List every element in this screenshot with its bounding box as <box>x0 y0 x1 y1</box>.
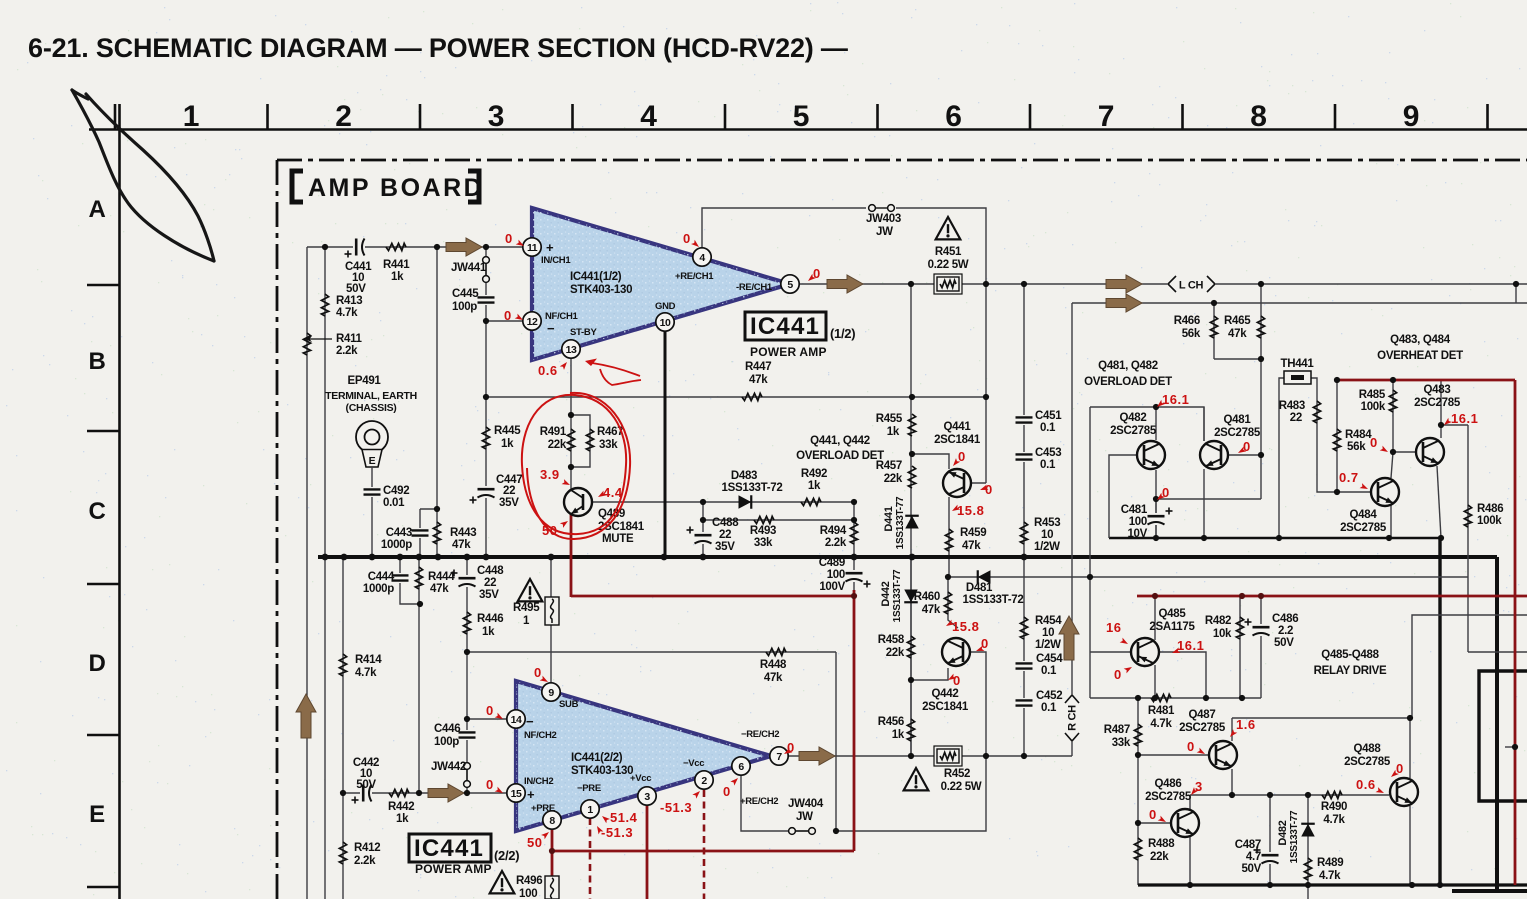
wire maroon y851 horizontal <box>552 850 854 853</box>
wire Q484 collector <box>1391 452 1393 478</box>
svg-text:R483: R483 <box>1279 400 1305 412</box>
svg-text:22k: 22k <box>1150 851 1169 863</box>
wire C481 vertical <box>1155 499 1157 538</box>
svg-text:R491: R491 <box>540 426 567 438</box>
svg-text:IN/CH2: IN/CH2 <box>524 776 553 787</box>
wire feedback top loop pin4-JW403 <box>702 208 866 257</box>
wire maroon overheat box right <box>1514 380 1517 885</box>
wire maroon pin8 drop <box>551 829 554 899</box>
pin 10 <box>656 313 674 331</box>
svg-text:Q487: Q487 <box>1189 709 1216 721</box>
svg-text:C453: C453 <box>1035 447 1061 459</box>
svg-text:0: 0 <box>504 308 512 323</box>
resistor R466 <box>1210 316 1217 338</box>
svg-text:R414: R414 <box>355 654 382 666</box>
wire maroon overheat box top <box>1337 379 1515 382</box>
svg-text:Q481, Q482: Q481, Q482 <box>1098 360 1158 372</box>
svg-text:50: 50 <box>527 835 542 850</box>
svg-text:2: 2 <box>335 100 351 133</box>
resistor R447 <box>742 393 762 400</box>
wire TH441 right lead R483 <box>1310 378 1370 492</box>
wire C443 tie <box>420 508 437 510</box>
svg-text:C444: C444 <box>368 571 395 583</box>
svg-text:R441: R441 <box>383 259 410 271</box>
wire x911 vertical CH1 sense <box>910 284 912 756</box>
svg-text:16.1: 16.1 <box>1162 392 1189 407</box>
capacitor C488 <box>694 532 712 544</box>
svg-text:100: 100 <box>1129 516 1147 528</box>
svg-text:33k: 33k <box>1112 737 1131 749</box>
resistor R494 <box>850 522 857 544</box>
fusible resistor R452 <box>934 746 962 766</box>
wire relay net y795 <box>1190 794 1389 796</box>
svg-text:RELAY DRIVE: RELAY DRIVE <box>1314 665 1387 677</box>
svg-text:1k: 1k <box>391 271 404 283</box>
svg-text:47k: 47k <box>922 604 941 616</box>
wire TH441 left lead <box>1279 378 1285 538</box>
pin 8 <box>543 811 561 829</box>
svg-text:NF/CH2: NF/CH2 <box>524 730 557 741</box>
svg-text:1SS133T-77: 1SS133T-77 <box>1289 810 1300 863</box>
ruler ticks <box>114 104 117 130</box>
svg-text:0.1: 0.1 <box>1041 702 1057 714</box>
svg-text:IC441(2/2): IC441(2/2) <box>571 752 623 764</box>
svg-text:D: D <box>88 650 105 677</box>
wire detect net y577 <box>948 576 1468 578</box>
wire Q485 collector <box>1154 665 1156 698</box>
svg-text:1k: 1k <box>501 438 514 450</box>
svg-text:50V: 50V <box>346 283 366 295</box>
ruler top line <box>89 128 1527 131</box>
svg-text:1000p: 1000p <box>381 539 412 551</box>
wire Q481 emitter <box>1203 469 1205 538</box>
pin 7 <box>770 747 788 765</box>
svg-text:100k: 100k <box>1361 401 1386 413</box>
wire R485 vertical <box>1392 380 1394 452</box>
connector R CH <box>1064 696 1080 740</box>
svg-text:4.7k: 4.7k <box>1323 814 1345 826</box>
svg-text:+: + <box>527 787 535 802</box>
wire R413 vertical x325 <box>324 247 326 899</box>
svg-text:4: 4 <box>699 252 705 264</box>
svg-text:100: 100 <box>519 888 537 899</box>
op-amp IC441(1/2) <box>532 208 790 360</box>
diode D442 <box>904 590 918 603</box>
wire Q442 collector R460 <box>948 577 958 628</box>
wire Q481 collector <box>1203 407 1205 441</box>
AMP BOARD dash-dot border top <box>277 159 1527 162</box>
wire Q487 collector <box>1231 718 1233 741</box>
svg-text:R487: R487 <box>1104 724 1130 736</box>
resistor R465 <box>1257 316 1264 338</box>
wire Q485 emitter <box>1154 597 1156 640</box>
wire maroon relay rail y596 <box>1137 595 1527 598</box>
wire Q487 emitter <box>1231 769 1233 795</box>
fusible resistor R451 <box>934 274 962 294</box>
svg-text:0: 0 <box>981 636 989 651</box>
wire maroon Q489 emitter down <box>570 514 573 597</box>
wire GND pin10 down <box>664 331 667 557</box>
annotation red arrow to pin13 <box>592 363 640 376</box>
svg-text:0: 0 <box>486 777 494 792</box>
wire R495 vertical <box>550 557 552 683</box>
svg-text:(1/2): (1/2) <box>830 326 855 341</box>
svg-text:2.2: 2.2 <box>1278 625 1293 637</box>
capacitor C446 <box>458 730 476 740</box>
wire D442 sense x911 lower <box>910 557 912 756</box>
wire Q486 emitter <box>1189 837 1191 885</box>
svg-text:10: 10 <box>1041 529 1053 541</box>
svg-text:2SC2785: 2SC2785 <box>1179 722 1226 734</box>
wire output CH1 after L CH <box>1216 283 1527 285</box>
svg-text:0.22 5W: 0.22 5W <box>941 781 982 793</box>
wire D482 R489 vertical <box>1307 795 1309 899</box>
svg-text:10k: 10k <box>1213 628 1232 640</box>
svg-text:D483: D483 <box>731 470 757 482</box>
wire JW404 left <box>741 775 788 831</box>
resistor R487 <box>1134 724 1141 746</box>
svg-text:4.7: 4.7 <box>1246 851 1261 863</box>
svg-text:R488: R488 <box>1148 838 1175 850</box>
svg-text:33k: 33k <box>599 439 618 451</box>
svg-text:1k: 1k <box>887 426 900 438</box>
svg-text:R413: R413 <box>336 295 362 307</box>
resistor R489 <box>1304 858 1311 880</box>
wire right edge stub dot <box>1505 746 1515 748</box>
wire Q482 collector <box>1155 407 1157 440</box>
svg-text:1/2W: 1/2W <box>1034 541 1060 553</box>
svg-text:2SC2785: 2SC2785 <box>1340 522 1387 534</box>
resistor R485 <box>1389 390 1396 412</box>
svg-text:D441: D441 <box>883 506 895 531</box>
svg-text:0.1: 0.1 <box>1040 459 1056 471</box>
wire C443 vertical <box>419 509 421 557</box>
resistor R413 <box>321 294 328 316</box>
svg-text:R CH: R CH <box>1067 705 1079 731</box>
svg-text:15: 15 <box>511 788 522 800</box>
svg-text:22k: 22k <box>884 473 903 485</box>
svg-text:4.7k: 4.7k <box>1150 718 1172 730</box>
svg-text:47k: 47k <box>452 539 471 551</box>
svg-text:51.4: 51.4 <box>610 810 638 825</box>
svg-text:B: B <box>88 348 105 375</box>
svg-text:+Vcc: +Vcc <box>630 773 651 784</box>
svg-text:4.7k: 4.7k <box>1319 870 1341 882</box>
svg-text:IC441: IC441 <box>750 313 820 340</box>
svg-text:50: 50 <box>542 523 557 538</box>
capacitor C451 <box>1015 415 1033 425</box>
wire pin12 stub <box>486 320 523 322</box>
svg-text:JW404: JW404 <box>788 798 824 810</box>
resistor R490 <box>1322 791 1342 798</box>
svg-text:4: 4 <box>640 100 657 133</box>
resistor R460 <box>944 592 951 614</box>
wire JW404 inner <box>796 830 808 832</box>
svg-text:2SC2785: 2SC2785 <box>1414 397 1461 409</box>
wire overload det box top y407 <box>1090 407 1204 441</box>
maroon junction dots <box>851 593 857 599</box>
wire x1024 filter chain lower <box>1023 557 1025 756</box>
wire Q482 base <box>1109 455 1137 538</box>
svg-text:C454: C454 <box>1036 653 1063 665</box>
svg-text:35V: 35V <box>715 541 735 553</box>
wire maroon pin3 drop <box>646 805 649 899</box>
transistor Q486 <box>1171 809 1199 837</box>
resistor R493 <box>754 516 774 523</box>
svg-text:47k: 47k <box>962 540 981 552</box>
svg-text:8: 8 <box>1250 100 1266 133</box>
brown arrow output CH1 <box>827 275 863 293</box>
svg-text:C488: C488 <box>712 517 739 529</box>
wire Q489 collector to D483 net <box>590 501 854 503</box>
svg-text:−: − <box>526 714 534 729</box>
bus junction dots <box>322 554 329 561</box>
svg-text:0: 0 <box>723 784 731 799</box>
wire R447 net y397 <box>486 396 986 398</box>
svg-text:3.9: 3.9 <box>540 467 560 482</box>
svg-text:2SC1841: 2SC1841 <box>922 701 969 713</box>
wire stub right edge <box>1515 284 1517 303</box>
wire R465 R466 tie <box>1214 358 1261 360</box>
resistor R484 <box>1333 429 1340 451</box>
svg-text:7: 7 <box>1098 100 1114 133</box>
svg-text:−RE/CH2: −RE/CH2 <box>741 729 779 740</box>
svg-text:R459: R459 <box>960 527 986 539</box>
pin 2 <box>695 771 713 789</box>
svg-text:1k: 1k <box>396 813 409 825</box>
svg-text:100: 100 <box>827 569 845 581</box>
wire bottom bus relay <box>1138 883 1527 886</box>
transistor Q484 <box>1371 478 1399 506</box>
svg-text:C486: C486 <box>1272 613 1298 625</box>
svg-text:100k: 100k <box>1477 515 1502 527</box>
resistor R444 <box>415 567 422 589</box>
svg-text:16.1: 16.1 <box>1451 411 1478 426</box>
wire R CH riser lower <box>1071 742 1073 756</box>
wire Q483 collector <box>1440 380 1442 438</box>
op-amp IC441(2/2) <box>516 681 771 831</box>
svg-text:R453: R453 <box>1034 517 1060 529</box>
capacitor C442 <box>360 784 372 802</box>
svg-text:C443: C443 <box>386 527 412 539</box>
svg-text:R492: R492 <box>801 468 827 480</box>
resistor R411 variable <box>303 333 310 355</box>
brown arrow L CH upper <box>1106 275 1142 293</box>
resistor R482 <box>1236 617 1243 639</box>
resistor R414 <box>339 654 346 676</box>
svg-text:1k: 1k <box>482 626 495 638</box>
diode D482 <box>1301 824 1315 837</box>
resistor R442 <box>389 789 409 796</box>
svg-text:22k: 22k <box>886 647 905 659</box>
svg-text:SUB: SUB <box>559 699 579 710</box>
svg-text:0.1: 0.1 <box>1041 665 1057 677</box>
capacitor C444 <box>391 573 409 583</box>
svg-text:-RE/CH1: -RE/CH1 <box>736 282 773 293</box>
brown arrow output CH2 <box>799 747 835 765</box>
svg-text:C451: C451 <box>1035 410 1062 422</box>
svg-text:22: 22 <box>719 529 731 541</box>
wire x1024 filter chain upper <box>1023 284 1025 557</box>
svg-text:R445: R445 <box>494 425 521 437</box>
svg-text:56k: 56k <box>1182 328 1201 340</box>
wire maroon y596 left segment <box>571 595 854 598</box>
wire Q483 base <box>1393 451 1416 453</box>
svg-text:1000p: 1000p <box>363 583 394 595</box>
wire C487 vertical <box>1269 795 1271 885</box>
svg-text:Q441: Q441 <box>944 421 972 433</box>
svg-text:100V: 100V <box>819 581 845 593</box>
svg-text:11: 11 <box>527 242 538 254</box>
svg-text:E: E <box>369 455 376 467</box>
wire R467 branch <box>571 415 590 467</box>
wire maroon x854 vertical <box>853 590 856 851</box>
resistor R458 <box>907 636 914 658</box>
wire R486 vertical <box>1467 425 1469 652</box>
pin 4 <box>693 248 711 266</box>
svg-text:R454: R454 <box>1035 615 1062 627</box>
svg-text:1k: 1k <box>808 480 821 492</box>
wire x1090 vertical <box>1089 407 1091 698</box>
wire R484 vertical <box>1336 380 1338 492</box>
svg-text:0: 0 <box>534 665 542 680</box>
wire Q441 right to x986 <box>964 482 986 484</box>
svg-text:4.7k: 4.7k <box>355 667 377 679</box>
svg-text:0: 0 <box>505 231 513 246</box>
wire R486 top tie <box>1441 424 1468 426</box>
wire Q486 collector <box>1189 795 1191 809</box>
wire bus bottom right stub <box>1452 889 1527 893</box>
wire R487 chain x1138 <box>1137 698 1139 885</box>
capacitor C486 <box>1252 624 1270 636</box>
svg-text:E: E <box>89 801 105 828</box>
wire pin14 stub <box>467 718 507 720</box>
brown arrow left channel riser <box>296 694 316 738</box>
capacitor C487 <box>1261 852 1279 864</box>
capacitor C452 <box>1015 698 1033 708</box>
capacitor C489 <box>845 570 863 582</box>
svg-text:C445: C445 <box>452 288 479 300</box>
transistor Q481 <box>1200 441 1228 469</box>
svg-text:JW442: JW442 <box>431 761 466 773</box>
svg-text:IN/CH1: IN/CH1 <box>541 255 571 266</box>
svg-text:Q481: Q481 <box>1224 414 1252 426</box>
resistor R481 <box>1151 694 1171 701</box>
wire maroon pin2 drop dashed <box>703 790 706 899</box>
svg-text:1k: 1k <box>892 729 905 741</box>
wire Q485 base <box>1090 651 1131 653</box>
svg-text:16: 16 <box>1106 620 1121 635</box>
junction dots <box>322 244 328 250</box>
wire Q488 collector <box>1409 718 1411 778</box>
wire R444 vertical x419 <box>418 557 420 793</box>
svg-text:1: 1 <box>183 100 199 133</box>
wire C489 vertical <box>853 557 855 597</box>
brown arrow input CH1 <box>446 238 482 256</box>
svg-text:10: 10 <box>660 317 671 329</box>
wire x437 vertical <box>436 247 438 557</box>
svg-text:35V: 35V <box>479 589 499 601</box>
svg-text:0.6: 0.6 <box>1356 777 1376 792</box>
resistor R483 <box>1313 401 1320 423</box>
svg-text:50V: 50V <box>1241 863 1261 875</box>
svg-text:1.6: 1.6 <box>1236 717 1256 732</box>
svg-text:D442: D442 <box>880 581 892 606</box>
capacitor C447 <box>477 486 495 498</box>
svg-text:2SC2785: 2SC2785 <box>1214 427 1261 439</box>
svg-text:Q484: Q484 <box>1350 509 1378 521</box>
svg-text:Q488: Q488 <box>1354 743 1382 755</box>
svg-text:Q482: Q482 <box>1120 412 1147 424</box>
svg-text:0.1: 0.1 <box>1040 422 1056 434</box>
diode D441 <box>905 516 919 529</box>
svg-text:14: 14 <box>511 714 522 726</box>
svg-text:IC441: IC441 <box>414 835 484 862</box>
diode D483 <box>739 495 752 509</box>
resistor R446 <box>463 612 470 634</box>
svg-text:R452: R452 <box>944 768 970 780</box>
svg-text:Q483, Q484: Q483, Q484 <box>1390 334 1451 346</box>
svg-text:MUTE: MUTE <box>602 533 634 545</box>
wire thick vertical x1440 <box>1438 538 1441 885</box>
wire R466 vertical <box>1213 303 1215 359</box>
svg-text:−Vcc: −Vcc <box>683 758 704 769</box>
jumper JW442 <box>464 763 471 770</box>
svg-text:R489: R489 <box>1317 857 1343 869</box>
wire JW403 right to x986 <box>896 208 986 483</box>
pin 3 <box>638 787 656 805</box>
svg-text:2.2k: 2.2k <box>825 537 847 549</box>
svg-text:R448: R448 <box>760 659 787 671</box>
svg-text:C481: C481 <box>1121 504 1148 516</box>
wire R482 vertical <box>1239 597 1241 698</box>
svg-text:0: 0 <box>1370 435 1378 450</box>
svg-text:TH441: TH441 <box>1280 358 1314 370</box>
svg-text:0: 0 <box>813 266 821 281</box>
svg-text:1SS133T-77: 1SS133T-77 <box>895 496 906 549</box>
svg-text:7: 7 <box>776 751 782 763</box>
svg-text:L CH: L CH <box>1179 280 1204 292</box>
svg-text:47k: 47k <box>764 672 783 684</box>
row ticks <box>87 284 120 287</box>
svg-text:10V: 10V <box>1127 528 1147 540</box>
svg-text:Q483: Q483 <box>1424 384 1451 396</box>
svg-text:22: 22 <box>503 485 515 497</box>
jumper JW404 <box>789 828 796 835</box>
wire C488 vertical <box>702 502 704 557</box>
svg-text:D482: D482 <box>1277 820 1289 845</box>
svg-text:50V: 50V <box>356 779 376 791</box>
svg-text:-51.3: -51.3 <box>601 825 633 840</box>
wire relay base feed y698 <box>1090 697 1261 699</box>
pin 11 <box>523 238 541 256</box>
svg-text:OVERHEAT DET: OVERHEAT DET <box>1377 350 1463 362</box>
svg-text:R451: R451 <box>935 246 962 258</box>
resistor R448 <box>766 648 786 655</box>
svg-text:0: 0 <box>953 673 961 688</box>
svg-text:0: 0 <box>1149 807 1157 822</box>
transistor Q488 <box>1390 778 1418 806</box>
pin 12 <box>523 312 541 330</box>
svg-text:13: 13 <box>566 344 577 356</box>
capacitor C448 <box>458 575 476 587</box>
svg-text:R455: R455 <box>876 413 903 425</box>
svg-text:22: 22 <box>1290 412 1302 424</box>
svg-text:TERMINAL, EARTH: TERMINAL, EARTH <box>325 390 417 402</box>
svg-text:5: 5 <box>793 100 809 133</box>
wire R494 vertical <box>853 502 855 557</box>
wire C486 vertical <box>1260 597 1262 698</box>
